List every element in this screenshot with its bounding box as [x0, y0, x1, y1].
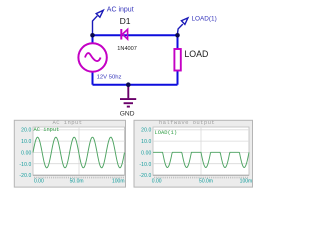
wire top horizontal (node AC input)	[93, 34, 178, 36]
wire left vertical bottom	[92, 71, 94, 85]
svg-text:0.00: 0.00	[141, 150, 151, 156]
svg-text:50.0m: 50.0m	[199, 179, 213, 185]
svg-text:0.00: 0.00	[152, 179, 162, 185]
wire right vertical top	[177, 35, 179, 49]
svg-text:0.00: 0.00	[21, 150, 31, 156]
probe arrow: AC input	[93, 10, 104, 35]
waveform LOAD(1) halfwave	[153, 152, 249, 167]
svg-text:LOAD(1): LOAD(1)	[155, 130, 178, 136]
wire left vertical top	[92, 35, 94, 44]
svg-text:AC input: AC input	[52, 119, 82, 126]
svg-text:-20.0: -20.0	[19, 173, 31, 179]
svg-text:GND: GND	[120, 110, 135, 117]
svg-text:20.0: 20.0	[141, 128, 151, 134]
svg-text:100m: 100m	[112, 179, 125, 185]
probe arrow: LOAD(1)	[178, 18, 188, 34]
svg-text:12V 50hz: 12V 50hz	[97, 75, 122, 81]
node junction at ground	[126, 82, 131, 87]
svg-text:50.0m: 50.0m	[70, 179, 84, 185]
svg-text:D1: D1	[120, 16, 131, 26]
svg-text:1N4007: 1N4007	[117, 46, 137, 52]
svg-text:LOAD: LOAD	[184, 49, 208, 59]
svg-text:-10.0: -10.0	[139, 162, 151, 168]
AC voltage source V1	[78, 43, 106, 71]
resistor LOAD	[174, 49, 180, 71]
wire right vertical bottom	[177, 70, 179, 85]
scope panel: AC input	[14, 119, 125, 187]
svg-text:-10.0: -10.0	[19, 162, 31, 168]
waveform AC input	[33, 137, 125, 168]
node junction at AC input	[90, 33, 95, 38]
scope panel: halfwave output	[134, 119, 253, 187]
svg-text:10.0: 10.0	[141, 139, 151, 145]
svg-text:10.0: 10.0	[21, 139, 31, 145]
svg-text:AC input: AC input	[34, 127, 60, 133]
svg-text:halfwave output: halfwave output	[159, 119, 215, 126]
svg-text:LOAD(1): LOAD(1)	[192, 15, 217, 22]
node junction at LOAD(1)	[175, 33, 180, 38]
svg-text:20.0: 20.0	[21, 128, 31, 134]
svg-text:-20.0: -20.0	[139, 173, 151, 179]
ground	[120, 85, 136, 107]
svg-text:100m: 100m	[240, 179, 253, 185]
svg-text:0.00: 0.00	[34, 179, 44, 185]
diode D1	[120, 29, 127, 40]
svg-text:AC input: AC input	[107, 6, 134, 13]
wire bottom horizontal (ground net)	[93, 84, 178, 86]
